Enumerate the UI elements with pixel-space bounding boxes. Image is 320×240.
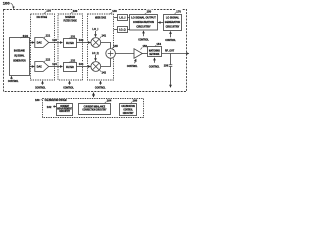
wire generator to config (158, 22, 163, 24)
svg-text:LO_Q: LO_Q (92, 51, 99, 55)
svg-text:140: 140 (112, 9, 117, 13)
wire transmitter to calibration (double arrow) (93, 93, 95, 97)
control arrow 150 (143, 31, 145, 36)
current imbalance correction circuitry 164 (79, 104, 111, 115)
svg-text:FILTER: FILTER (66, 41, 74, 45)
wire LO_Q to config (128, 29, 130, 31)
svg-text:MIXER STAGE: MIXER STAGE (95, 16, 106, 19)
amplifier 152 (134, 49, 142, 59)
wire LO_I to config (128, 17, 130, 19)
svg-text:LO_I: LO_I (119, 16, 125, 20)
DAC 122 (35, 62, 49, 72)
node LO_Q box (118, 27, 128, 33)
svg-text:CONTROL: CONTROL (95, 85, 106, 89)
svg-text:FILTER STAGE: FILTER STAGE (64, 20, 77, 23)
calibration system box 160 (43, 99, 144, 118)
svg-text:I/Q SIGNAL: I/Q SIGNAL (14, 54, 24, 58)
svg-text:CALIBRATION SYSTEM: CALIBRATION SYSTEM (45, 99, 67, 102)
svg-text:132: 132 (71, 58, 76, 62)
svg-text:150: 150 (147, 10, 152, 14)
svg-text:156: 156 (164, 64, 169, 68)
svg-text:130: 130 (73, 9, 78, 13)
wire LO_I to mixer stage (114, 17, 118, 19)
svg-text:CIRCUITRY: CIRCUITRY (123, 112, 134, 115)
wire LO_Q to mixer stage (114, 29, 118, 31)
svg-text:134: 134 (79, 62, 84, 66)
svg-text:145: 145 (113, 44, 118, 48)
node LO_I box (118, 15, 128, 21)
svg-text:RF_OUT: RF_OUT (165, 49, 175, 52)
svg-text:DAC: DAC (37, 41, 42, 45)
svg-text:FILTER: FILTER (66, 65, 74, 69)
svg-text:120: 120 (46, 9, 51, 13)
svg-text:142: 142 (102, 71, 107, 75)
control arrow mixer stage (100, 81, 102, 85)
svg-text:CONTROL: CONTROL (149, 64, 160, 68)
calibration control circuitry 166 (120, 104, 137, 116)
svg-text:LO SIGNAL OUTPUT: LO SIGNAL OUTPUT (131, 15, 156, 19)
svg-text:166: 166 (133, 98, 138, 102)
control arrow DAC stage (42, 81, 44, 85)
outer transmitter box 100 (4, 10, 187, 92)
svg-text:GENERATOR: GENERATOR (165, 20, 181, 24)
label 170 (176, 9, 182, 13)
baseband I/Q signal generator 110 (10, 38, 30, 76)
svg-text:CONTROL: CONTROL (63, 86, 74, 90)
wire 133 filter to mixer (77, 42, 91, 44)
svg-text:131: 131 (71, 34, 76, 38)
svg-text:CONFIGURATION: CONFIGURATION (133, 20, 154, 24)
summer 145 (106, 49, 116, 59)
LO signal generator circuitry 170 (164, 15, 182, 31)
shunt wire (170, 54, 172, 65)
svg-text:CONTROL: CONTROL (8, 79, 19, 83)
wire to ground arrow (170, 67, 172, 87)
wire summer to amplifier (115, 53, 134, 55)
svg-text:LO_Q: LO_Q (119, 28, 125, 32)
svg-text:124: 124 (52, 62, 57, 66)
control arrow matching network (154, 58, 156, 63)
svg-text:CIRCUITRY: CIRCUITRY (59, 110, 70, 113)
mixer 142 (91, 62, 101, 72)
svg-text:DAC: DAC (37, 65, 42, 69)
control arrow 170 (170, 32, 172, 38)
wire amplifier to matching network (142, 53, 147, 55)
svg-text:122: 122 (46, 58, 51, 62)
svg-text:162: 162 (47, 105, 52, 109)
filter 131 (64, 39, 77, 48)
DAC 121 (35, 38, 49, 48)
wire 124 DAC to filter (49, 66, 63, 68)
svg-text:100: 100 (3, 1, 10, 5)
svg-text:164: 164 (107, 98, 112, 102)
control arrow filter stage (69, 81, 71, 85)
svg-text:CONTROL: CONTROL (127, 64, 138, 68)
wire 134 filter to mixer (77, 66, 91, 68)
baseband filter stage box 130 (58, 14, 83, 80)
svg-text:LO SIGNAL: LO SIGNAL (166, 16, 180, 20)
capacitor 156 (169, 65, 173, 67)
wire baseband to DAC Q (30, 66, 35, 68)
LO signal output configuration circuitry 150 (130, 15, 158, 31)
mixer stage box 140 (88, 14, 114, 80)
mixer 141 (91, 38, 101, 48)
svg-text:GENERATOR: GENERATOR (13, 58, 26, 62)
svg-text:121: 121 (46, 33, 51, 37)
svg-text:CORRECTION CIRCUITRY: CORRECTION CIRCUITRY (82, 109, 106, 112)
label 150 (146, 9, 152, 13)
svg-text:133: 133 (79, 38, 84, 42)
svg-text:170: 170 (176, 9, 181, 13)
svg-text:154: 154 (156, 42, 161, 46)
control arrow baseband (11, 76, 13, 79)
svg-text:141: 141 (102, 33, 107, 37)
svg-text:DAC STAGE: DAC STAGE (37, 16, 48, 19)
svg-text:123: 123 (52, 38, 57, 42)
current measurement circuitry 162 (57, 104, 73, 116)
wire 123 DAC to filter (49, 42, 63, 44)
svg-text:BASEBAND: BASEBAND (14, 49, 25, 53)
svg-text:CONTROL: CONTROL (165, 38, 176, 42)
wire mixer2 to summer (101, 58, 111, 66)
wire mixer1 to summer (101, 43, 111, 49)
svg-text:CIRCUITRY: CIRCUITRY (136, 25, 151, 29)
svg-text:CONTROL: CONTROL (138, 37, 149, 41)
matching network 154 (148, 47, 162, 57)
label 140 (112, 9, 118, 13)
svg-text:NETWORK: NETWORK (149, 53, 159, 56)
wire baseband to DAC I (30, 42, 35, 44)
label 120 (46, 8, 52, 12)
node RF_OUT (162, 53, 189, 55)
svg-text:110: 110 (23, 34, 29, 38)
filter 132 (64, 63, 77, 72)
svg-text:LO_I: LO_I (92, 27, 98, 31)
svg-text:152: 152 (143, 44, 148, 48)
svg-text:CONTROL: CONTROL (35, 86, 46, 90)
svg-text:CIRCUITRY: CIRCUITRY (166, 25, 180, 29)
DAC stage box 120 (31, 14, 55, 80)
control arrow amplifier (135, 59, 136, 63)
svg-text:160: 160 (35, 98, 40, 102)
label 130 (72, 9, 78, 13)
